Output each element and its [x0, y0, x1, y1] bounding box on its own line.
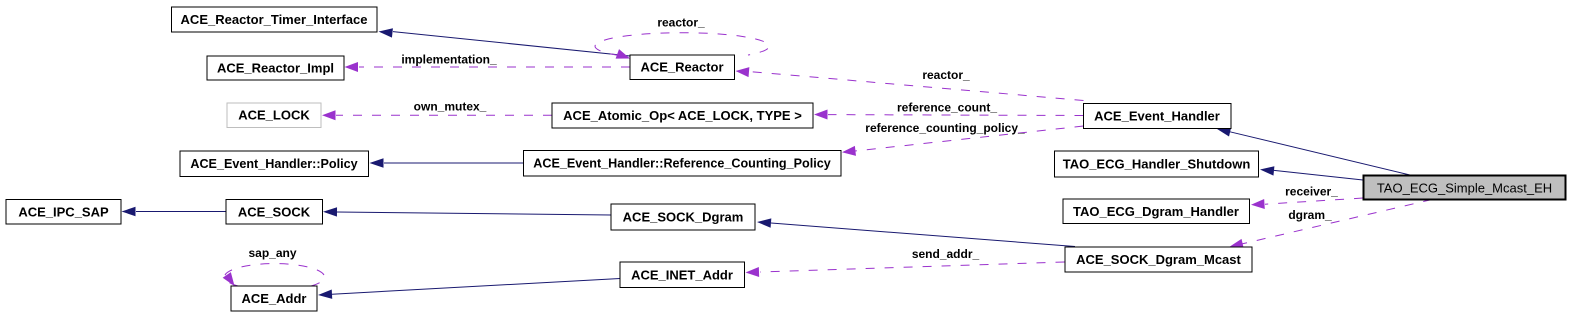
svg-text:receiver_: receiver_: [1285, 184, 1338, 198]
svg-text:ACE_Reactor: ACE_Reactor: [640, 60, 723, 75]
svg-text:ACE_Reactor_Timer_Interface: ACE_Reactor_Timer_Interface: [181, 12, 368, 27]
node TAO_ECG_Dgram_Handler: [1063, 199, 1250, 224]
wire inheritance ACE_Reactor to ACE_Reactor_Timer_Interface: [378, 27, 630, 56]
svg-text:ACE_SOCK_Dgram_Mcast: ACE_SOCK_Dgram_Mcast: [1076, 252, 1241, 267]
wire inheritance ACE_INET_Addr to ACE_Addr: [318, 279, 620, 300]
wire inheritance TAO_ECG_Simple_Mcast_EH to ACE_Event_Handler: [1215, 124, 1412, 175]
node ACE_Reactor_Timer_Interface: [172, 7, 378, 32]
wire usage receiver_ TAO_ECG_Simple_Mcast_EH to TAO_ECG_Dgram_Handler: [1251, 198, 1363, 210]
svg-text:ACE_Atomic_Op< ACE_LOCK, TYPE: ACE_Atomic_Op< ACE_LOCK, TYPE >: [563, 108, 802, 123]
node ACE_INET_Addr: [620, 262, 745, 288]
wire usage reactor_ ACE_Event_Handler to ACE_Reactor: [735, 66, 1083, 100]
node ACE_Event_Handler::Policy: [180, 151, 369, 177]
svg-text:reference_counting_policy_: reference_counting_policy_: [865, 121, 1025, 135]
wire inheritance ACE_SOCK_Dgram_Mcast to ACE_SOCK_Dgram: [757, 217, 1075, 246]
svg-text:ACE_SOCK_Dgram: ACE_SOCK_Dgram: [623, 210, 744, 225]
svg-text:sap_any: sap_any: [248, 246, 296, 260]
node ACE_Reactor: [630, 55, 735, 80]
svg-text:ACE_Reactor_Impl: ACE_Reactor_Impl: [217, 61, 334, 76]
svg-text:TAO_ECG_Simple_Mcast_EH: TAO_ECG_Simple_Mcast_EH: [1377, 181, 1552, 196]
node ACE_Addr: [231, 286, 317, 311]
node TAO_ECG_Handler_Shutdown: [1055, 151, 1259, 177]
node ACE_SOCK_Dgram_Mcast: [1065, 247, 1252, 272]
node ACE_Atomic_Op< ACE_LOCK, TYPE >: [552, 103, 813, 128]
node ACE_SOCK_Dgram: [611, 204, 755, 230]
node ACE_Reactor_Impl: [207, 56, 344, 80]
svg-text:ACE_IPC_SAP: ACE_IPC_SAP: [18, 205, 109, 220]
node ACE_SOCK: [226, 200, 323, 225]
node ACE_LOCK (grey border): [227, 103, 321, 128]
node ACE_Event_Handler: [1084, 104, 1232, 129]
node ACE_Event_Handler::Reference_Counting_Policy: [523, 151, 841, 177]
wire usage dgram_ TAO_ECG_Simple_Mcast_EH to ACE_SOCK_Dgram_Mcast: [1228, 200, 1432, 252]
svg-text:TAO_ECG_Handler_Shutdown: TAO_ECG_Handler_Shutdown: [1063, 157, 1251, 172]
svg-text:reference_count_: reference_count_: [897, 100, 997, 114]
svg-text:ACE_LOCK: ACE_LOCK: [238, 108, 310, 123]
wire usage reference_counting_policy_ ACE_Event_Handler to Reference_Counting_Policy: [841, 126, 1083, 157]
wire usage self-loop sap_any on ACE_Addr: [223, 264, 325, 289]
svg-text:ACE_Event_Handler: ACE_Event_Handler: [1094, 109, 1220, 124]
svg-text:ACE_Event_Handler::Policy: ACE_Event_Handler::Policy: [190, 157, 357, 171]
svg-text:ACE_SOCK: ACE_SOCK: [238, 205, 311, 220]
wire usage send_addr_ ACE_SOCK_Dgram_Mcast to ACE_INET_Addr: [745, 262, 1064, 277]
svg-text:TAO_ECG_Dgram_Handler: TAO_ECG_Dgram_Handler: [1073, 204, 1239, 219]
node TAO_ECG_Simple_Mcast_EH (current, grey): [1364, 176, 1566, 200]
wire usage reference_count_ ACE_Event_Handler to ACE_Atomic_Op: [814, 110, 1084, 120]
svg-text:send_addr_: send_addr_: [912, 247, 980, 261]
wire usage own_mutex_ ACE_Atomic_Op to ACE_LOCK: [322, 110, 552, 120]
wire usage self-loop reactor_ on ACE_Reactor: [595, 33, 769, 64]
wire inheritance ACE_Event_Handler::Reference_Counting_Policy to ACE_Event_Handler::Policy: [370, 158, 524, 167]
wire usage implementation_ ACE_Reactor to ACE_Reactor_Impl: [345, 62, 631, 72]
svg-text:own_mutex_: own_mutex_: [414, 100, 487, 114]
wire inheritance TAO_ECG_Simple_Mcast_EH to TAO_ECG_Handler_Shutdown: [1260, 165, 1363, 180]
svg-text:reactor_: reactor_: [922, 68, 970, 82]
wire inheritance ACE_SOCK to ACE_IPC_SAP: [122, 207, 227, 216]
svg-text:ACE_Event_Handler::Reference_C: ACE_Event_Handler::Reference_Counting_Po…: [533, 157, 830, 171]
svg-text:ACE_Addr: ACE_Addr: [241, 291, 306, 306]
svg-text:implementation_: implementation_: [401, 53, 497, 67]
svg-text:ACE_INET_Addr: ACE_INET_Addr: [631, 268, 733, 283]
wire inheritance ACE_SOCK_Dgram to ACE_SOCK: [323, 207, 611, 217]
svg-text:dgram_: dgram_: [1288, 208, 1332, 222]
node ACE_IPC_SAP: [6, 200, 121, 225]
svg-text:reactor_: reactor_: [657, 16, 705, 30]
